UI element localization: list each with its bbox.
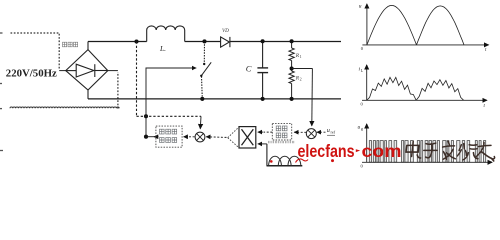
svg-text:ref: ref xyxy=(331,130,336,135)
svg-text:2: 2 xyxy=(300,77,302,82)
svg-text:C: C xyxy=(246,64,252,74)
svg-text:1: 1 xyxy=(300,54,302,59)
svg-text:com: com xyxy=(362,141,402,161)
svg-text:g: g xyxy=(361,126,363,131)
svg-text:220V/50Hz: 220V/50Hz xyxy=(6,69,58,80)
svg-text:VD: VD xyxy=(222,28,229,34)
svg-text:L.: L. xyxy=(159,44,166,53)
svg-text:elecfans: elecfans xyxy=(298,141,355,161)
svg-text:u: u xyxy=(359,4,362,10)
svg-text:u: u xyxy=(327,127,330,134)
